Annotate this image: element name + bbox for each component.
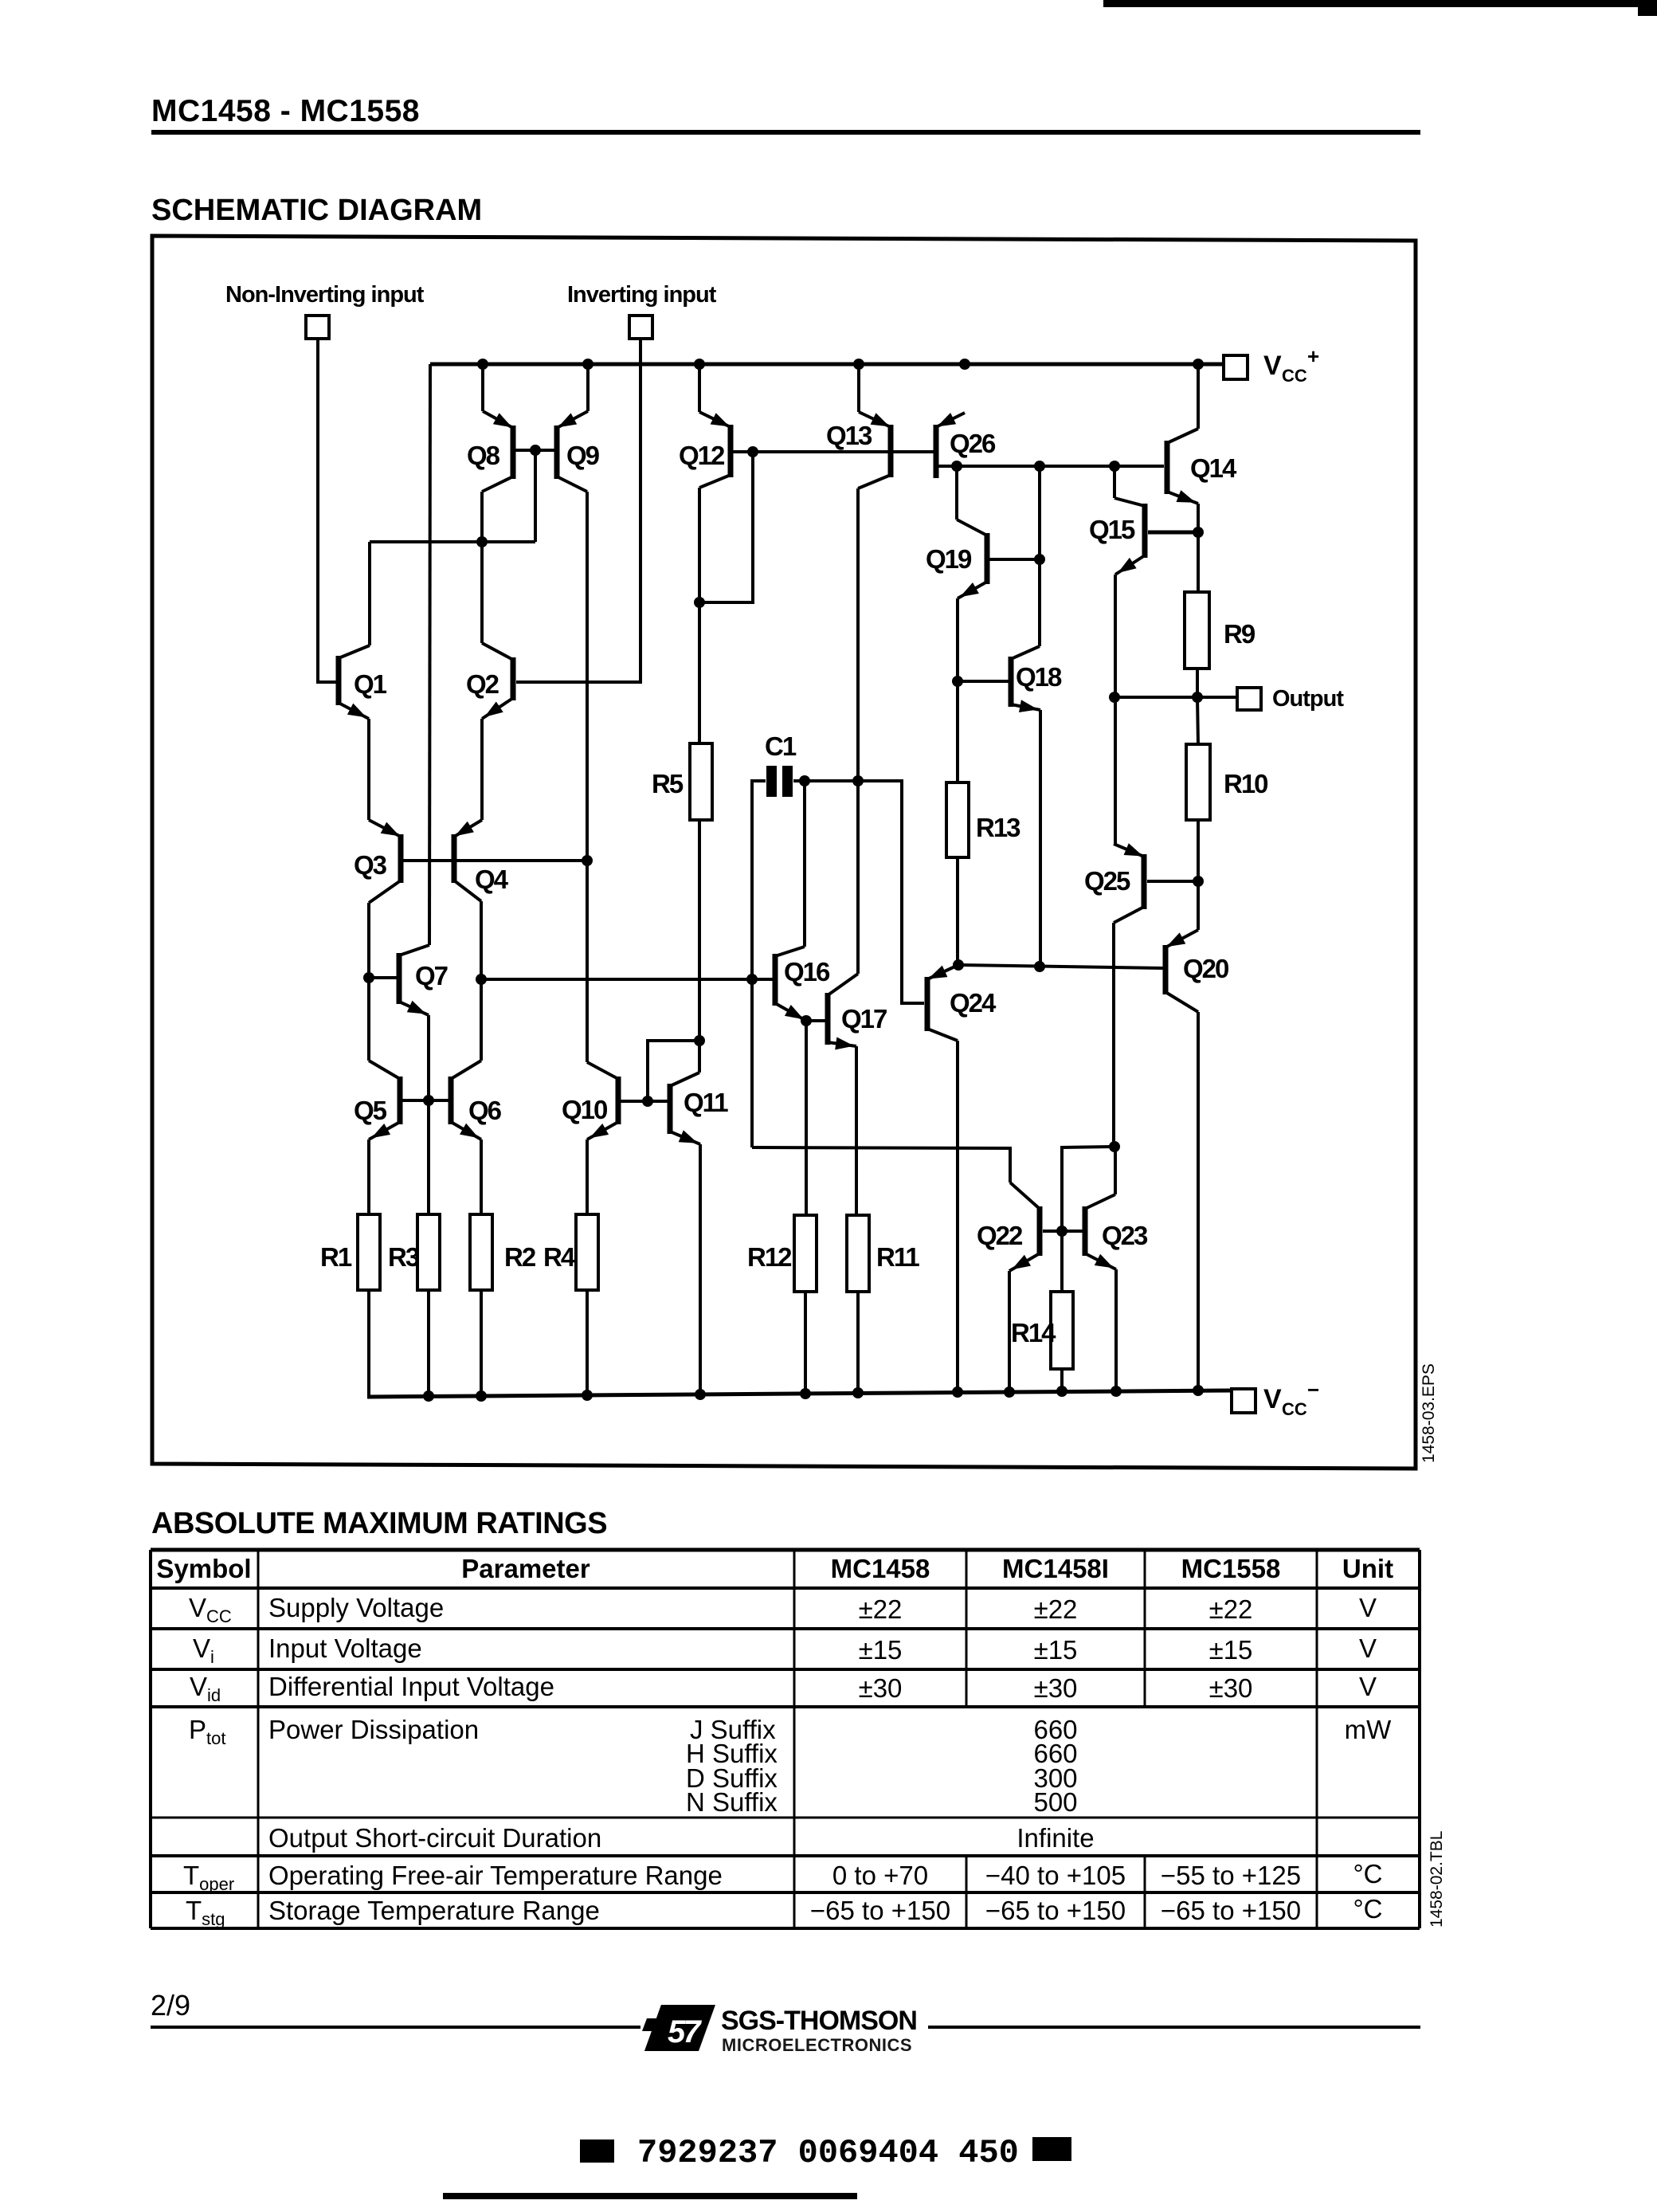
svg-text:Q2: Q2 xyxy=(466,669,499,699)
wire: Q10 emitter to R4 xyxy=(586,1139,589,1215)
table: absolute maximum ratings - grid xyxy=(151,1550,1420,1928)
transistor Q16 (NPN) xyxy=(773,947,831,1021)
wire: Q22/Q23 base tie to Q25 collector node xyxy=(1062,1147,1114,1231)
node: rail junction Q23 emitter xyxy=(1111,1386,1122,1397)
svg-text:MC1458I: MC1458I xyxy=(1002,1554,1109,1583)
svg-text:−55 to +125: −55 to +125 xyxy=(1161,1861,1301,1890)
svg-text:SCHEMATIC DIAGRAM: SCHEMATIC DIAGRAM xyxy=(151,194,482,227)
schematic frame xyxy=(152,236,1416,1469)
transistor Q5 (NPN) xyxy=(354,1061,403,1139)
node: Q22/Q23 base junction xyxy=(1056,1226,1067,1237)
wire: Q18 base xyxy=(958,680,1009,683)
svg-text:Differential Input Voltage: Differential Input Voltage xyxy=(268,1672,554,1701)
node: Q8/Q9 base junction xyxy=(530,445,541,456)
wire: Q25 base xyxy=(1147,880,1198,883)
wire: Q4/Q6 collector node to Q16 base xyxy=(481,978,773,981)
node: rail junction Q14 collector xyxy=(1193,359,1204,370)
node: R13 bottom / Q24 emitter junction xyxy=(953,959,964,971)
wire: Q23 collector riser xyxy=(1114,1147,1117,1194)
wire: Q15 emitter riser to output node xyxy=(1114,575,1117,844)
svg-text:R9: R9 xyxy=(1224,619,1255,649)
svg-text:Q12: Q12 xyxy=(679,441,725,470)
wire: output node line xyxy=(1114,696,1237,699)
svg-text:Q19: Q19 xyxy=(926,544,972,574)
svg-text:500: 500 xyxy=(1033,1787,1077,1817)
wire: output node to R10 top xyxy=(1197,697,1198,745)
svg-text:Q1: Q1 xyxy=(354,669,387,699)
svg-text:Operating Free-air Temperature: Operating Free-air Temperature Range xyxy=(268,1861,723,1890)
svg-text:Infinite: Infinite xyxy=(1017,1823,1094,1853)
svg-text:Unit: Unit xyxy=(1342,1554,1393,1583)
transistor Q15 (NPN) xyxy=(1089,498,1148,575)
svg-text:V: V xyxy=(1263,1384,1282,1414)
wire: Q8-Q9 base tie xyxy=(515,449,555,452)
svg-text:Q14: Q14 xyxy=(1190,453,1237,483)
wire: Q26 collector line to Q14 base xyxy=(938,465,1164,468)
table row Vid differential input voltage xyxy=(190,1672,1377,1705)
svg-text:±30: ±30 xyxy=(859,1673,903,1703)
wire: Q22 emitter riser xyxy=(1008,1271,1011,1392)
svg-text:57: 57 xyxy=(668,2014,702,2049)
svg-text:−: − xyxy=(1307,1378,1319,1402)
node: rail junction R14 xyxy=(1056,1386,1067,1397)
svg-text:CC: CC xyxy=(1282,366,1307,386)
wire: Q23 emitter riser xyxy=(1114,1269,1118,1391)
wire: R3 bottom riser xyxy=(427,1290,430,1396)
node: Q12 base-collector tie junction xyxy=(747,446,758,457)
terminal: Output xyxy=(1237,686,1344,712)
svg-text:V: V xyxy=(1263,351,1282,381)
wire: Q10-Q11 base tie xyxy=(621,1100,668,1103)
wire: Q8 emitter riser xyxy=(481,364,484,411)
wire: Q4 collector to Q6 collector column xyxy=(480,901,483,1061)
wire: Q25 collector riser xyxy=(1112,923,1115,1147)
svg-text:CC: CC xyxy=(1282,1399,1307,1419)
node: rail junction Q9 emitter xyxy=(582,359,593,370)
svg-text:±22: ±22 xyxy=(1209,1594,1253,1624)
scan artifact: top black bar xyxy=(1103,0,1657,7)
svg-text:Symbol: Symbol xyxy=(156,1554,251,1583)
svg-text:Inverting input: Inverting input xyxy=(567,282,717,308)
wire: R14 bottom riser xyxy=(1060,1369,1064,1391)
transistor Q6 (NPN) xyxy=(449,1061,502,1139)
node: rail junction Q26 emitter xyxy=(959,359,970,370)
wire: Q20 base line xyxy=(958,965,1163,968)
wire: Q3 collector to Q5 collector column xyxy=(367,903,370,1061)
wire: Q9/Q10 collector column to Q3-Q4 base line xyxy=(586,492,589,1062)
svg-text:R13: R13 xyxy=(976,813,1020,842)
wire: Q12 collector riser to R5 xyxy=(698,488,701,744)
svg-text:Q9: Q9 xyxy=(566,441,600,470)
node: rail junction R12 xyxy=(800,1388,811,1399)
transistor Q2 (NPN) xyxy=(466,643,516,719)
wire: Q19 collector riser xyxy=(955,466,958,520)
wire: Vcc+ rail to Q14 collector xyxy=(1197,364,1200,429)
transistor Q18 (NPN) xyxy=(1009,646,1063,712)
transistor Q9 (PNP) xyxy=(554,411,600,492)
node: rail junction Q12 emitter xyxy=(694,359,705,370)
svg-text:Parameter: Parameter xyxy=(461,1554,590,1583)
wire: Vcc+ top rail xyxy=(430,363,1224,367)
node: rail junction Q8 emitter xyxy=(477,359,488,370)
node: Q14 emitter / Q15 base junction xyxy=(1193,527,1204,538)
svg-text:±22: ±22 xyxy=(859,1594,903,1624)
terminal: Non-Inverting input xyxy=(225,282,425,339)
transistor Q13 (PNP) xyxy=(826,412,894,488)
wire: Q16 base node to Q22 collector xyxy=(752,1147,1010,1182)
resistor R11 xyxy=(847,1215,919,1292)
svg-text:R12: R12 xyxy=(747,1242,792,1272)
resistor R3 xyxy=(388,1214,440,1290)
wire: Q6 emitter to R2 xyxy=(480,1139,483,1215)
table row Tstg xyxy=(186,1894,1383,1929)
svg-text:MC1458 - MC1558: MC1458 - MC1558 xyxy=(151,94,420,128)
wire: Q8 collector riser / Q2 collector riser xyxy=(480,492,484,643)
svg-text:−65 to +150: −65 to +150 xyxy=(985,1896,1126,1925)
svg-text:MІCROELECTRONІCS: MІCROELECTRONІCS xyxy=(722,2035,912,2055)
svg-text:Q3: Q3 xyxy=(354,850,387,880)
wire: R12 bottom riser xyxy=(804,1292,807,1394)
wire: R12 top riser xyxy=(805,1021,808,1215)
wire: Q14 emitter to R9 top xyxy=(1197,504,1200,593)
svg-text:V: V xyxy=(1359,1634,1377,1663)
wire: Q1 emitter riser to Q3 emitter xyxy=(367,719,370,820)
svg-text:Q22: Q22 xyxy=(977,1221,1023,1250)
svg-text:1458-03.EPS: 1458-03.EPS xyxy=(1420,1363,1438,1463)
node: Q18 base junction xyxy=(952,676,963,687)
wire: non-inverting input to Q1 base xyxy=(318,339,336,682)
wire: Q17 emitter to R11 top xyxy=(855,1046,858,1215)
node: output junction R9/R10 xyxy=(1192,692,1203,703)
svg-text:MC1458: MC1458 xyxy=(831,1554,930,1583)
svg-text:Q11: Q11 xyxy=(684,1088,728,1117)
svg-text:Non-Inverting input: Non-Inverting input xyxy=(225,282,425,308)
wire: Q5 emitter to R1 xyxy=(367,1139,370,1215)
node: junction x1305 riser on Q14 base line xyxy=(1034,461,1045,472)
wire: Q16 collector riser xyxy=(803,781,806,947)
svg-text:−65 to +150: −65 to +150 xyxy=(1161,1896,1301,1925)
wire: Q19 base xyxy=(989,558,1040,561)
svg-text:R1: R1 xyxy=(320,1242,352,1272)
svg-text:R2: R2 xyxy=(504,1242,536,1272)
wire: R9 bottom to output node xyxy=(1196,669,1199,697)
wire: Q19 emitter riser to R13 top xyxy=(956,598,959,783)
resistor R10 xyxy=(1186,744,1267,820)
node: rail junction Q11 emitter xyxy=(695,1389,706,1400)
table row Toper xyxy=(183,1859,1383,1894)
node: Q11 base tie junction on R5 line xyxy=(694,1035,705,1046)
svg-text:±15: ±15 xyxy=(859,1635,903,1665)
wire: Q24 collector riser to rail xyxy=(956,1041,959,1392)
svg-text:Q16: Q16 xyxy=(784,957,830,986)
node: junction Q19 collector on Q14 base line xyxy=(951,461,962,472)
node: Q25 collector / Q23 collector junction xyxy=(1109,1141,1120,1152)
transistor Q23 (NPN) xyxy=(1083,1194,1149,1269)
svg-text:−65 to +150: −65 to +150 xyxy=(810,1896,950,1925)
svg-text:±30: ±30 xyxy=(1209,1673,1253,1703)
scan artifact: bottom line xyxy=(443,2193,857,2199)
resistor R13 xyxy=(946,782,1020,857)
barcode right block xyxy=(1032,2137,1071,2161)
svg-text:Q18: Q18 xyxy=(1016,662,1062,692)
transistor Q8 (PNP) xyxy=(467,411,516,492)
svg-text:R5: R5 xyxy=(652,769,684,798)
resistor R5 xyxy=(652,743,712,820)
wire: R1 bottom riser xyxy=(367,1290,370,1397)
terminal: Vcc+ xyxy=(1224,344,1319,386)
svg-text:V: V xyxy=(1359,1593,1377,1622)
svg-text:+: + xyxy=(1307,344,1319,368)
svg-text:Q8: Q8 xyxy=(467,441,500,470)
svg-text:V: V xyxy=(1359,1672,1377,1701)
wire: Q2 emitter riser to Q4 emitter xyxy=(480,719,484,820)
node: Q3/Q4 base - Q9/Q10 collector junction xyxy=(582,855,593,866)
wire: R10 bottom to Q20 emitter xyxy=(1197,820,1200,930)
wire: Q3/Q4 base line xyxy=(403,859,587,862)
wire: Q15 collector riser xyxy=(1113,466,1116,498)
transistor Q11 (NPN) xyxy=(668,1073,729,1144)
wire: Q12 emitter riser xyxy=(698,364,701,412)
transistor Q12 (PNP) xyxy=(679,412,734,488)
svg-text:Output Short-circuit Duration: Output Short-circuit Duration xyxy=(268,1823,601,1853)
transistor Q20 (PNP) xyxy=(1163,930,1229,1012)
wire: Q11 emitter to bottom rail xyxy=(699,1144,702,1394)
svg-text:Output: Output xyxy=(1272,686,1344,712)
svg-text:N Suffix: N Suffix xyxy=(686,1787,778,1817)
table row output short-circuit duration xyxy=(268,1823,1095,1853)
node: rail junction R2 xyxy=(476,1390,487,1402)
node: junction Q15 collector on Q14 base line xyxy=(1109,461,1120,472)
transistor Q14 (NPN) xyxy=(1165,429,1238,504)
wire: Q12 diode tie loop xyxy=(699,452,753,602)
node: rail junction R4 xyxy=(582,1390,593,1401)
svg-text:7929237 0069404 450: 7929237 0069404 450 xyxy=(637,2134,1019,2172)
svg-text:°C: °C xyxy=(1353,1894,1382,1924)
svg-text:MC1558: MC1558 xyxy=(1181,1554,1281,1583)
table row Vcc supply voltage xyxy=(189,1593,1377,1626)
wire: inverting input to Q2 base xyxy=(516,339,640,682)
wire: R13 bottom riser xyxy=(956,857,959,965)
svg-text:Q20: Q20 xyxy=(1183,954,1228,983)
svg-text:0 to +70: 0 to +70 xyxy=(832,1861,928,1890)
svg-text:Power Dissipation: Power Dissipation xyxy=(268,1715,479,1744)
svg-text:Input Voltage: Input Voltage xyxy=(268,1634,422,1663)
footer rule left xyxy=(151,2026,640,2029)
wire: Q9 emitter riser xyxy=(586,364,590,411)
node: Q5/Q6 base junction xyxy=(423,1095,434,1106)
barcode left block xyxy=(580,2139,614,2163)
svg-text:R14: R14 xyxy=(1011,1318,1056,1347)
transistor Q1 (NPN) xyxy=(336,645,387,719)
node: junction Q4/Q6 collector column xyxy=(476,974,487,985)
node: rail junction Q24 collector xyxy=(952,1386,963,1398)
header rule xyxy=(151,130,1420,135)
wire: Q7 emitter riser to Q5/Q6 base xyxy=(427,1015,430,1100)
wire: Vcc feed down to Q7 collector xyxy=(429,364,430,945)
wire: Vcc- bottom rail xyxy=(367,1390,1232,1397)
wire: Q7 base xyxy=(369,976,397,979)
wire: Q5-Q6 base tie xyxy=(402,1099,449,1102)
wire: Q18 collector riser column xyxy=(1038,466,1041,646)
node: rail junction R3 xyxy=(423,1390,434,1402)
wire: Q16 emitter node to Q17 base xyxy=(806,1019,826,1022)
wire: Q13 emitter riser xyxy=(857,364,860,412)
resistor R9 xyxy=(1185,592,1255,669)
wire: R5 bottom to Q11 collector xyxy=(698,820,701,1073)
wire: Q15 base xyxy=(1148,531,1198,535)
wire: Q12-Q13-Q26 base line xyxy=(733,450,934,453)
node: rail junction Q22 emitter xyxy=(1004,1386,1015,1398)
svg-text:Q26: Q26 xyxy=(950,429,996,458)
node: Q7 base junction xyxy=(363,972,374,983)
table row Ptot power dissipation xyxy=(189,1715,1392,1817)
svg-text:Q5: Q5 xyxy=(354,1096,387,1125)
svg-text:Q24: Q24 xyxy=(950,988,997,1018)
transistor Q26 (PNP) xyxy=(934,413,997,478)
footer rule right xyxy=(928,2026,1420,2029)
svg-text:C1: C1 xyxy=(765,731,797,761)
svg-text:Q4: Q4 xyxy=(475,865,509,894)
capacitor C1 xyxy=(765,731,797,797)
wire: R4 bottom riser xyxy=(586,1290,589,1395)
svg-text:Q6: Q6 xyxy=(468,1096,502,1125)
node: Q16 emitter / R12 junction xyxy=(801,1015,812,1026)
transistor Q25 (PNP) xyxy=(1084,843,1147,923)
node: rail junction Q20 collector xyxy=(1193,1385,1204,1396)
table row Vi input voltage xyxy=(193,1634,1377,1667)
transistor Q24 (PNP) xyxy=(925,965,997,1041)
svg-text:±30: ±30 xyxy=(1034,1673,1078,1703)
svg-text:SGS-THOMSON: SGS-THOMSON xyxy=(721,2006,917,2036)
node: Q18 emitter junction on Q20 base line xyxy=(1034,961,1045,972)
resistor R14 xyxy=(1011,1292,1073,1369)
svg-text:Q15: Q15 xyxy=(1089,515,1135,544)
transistor Q3 (PNP) xyxy=(354,820,404,903)
wire: Q22-Q23 base tie xyxy=(1043,1230,1083,1233)
svg-text:ABSOLUTE MAXIMUM RATINGS: ABSOLUTE MAXIMUM RATINGS xyxy=(151,1507,607,1540)
node: Q8 collector / Q2 collector junction xyxy=(476,536,488,547)
svg-text:R4: R4 xyxy=(543,1242,576,1272)
wire: Q18 emitter riser xyxy=(1039,710,1042,967)
svg-text:Storage Temperature Range: Storage Temperature Range xyxy=(268,1896,600,1925)
transistor Q17 (NPN) xyxy=(825,974,887,1049)
wire: Q5/Q6 base node down to R3 xyxy=(427,1100,430,1215)
svg-text:°C: °C xyxy=(1353,1859,1382,1888)
svg-text:Supply Voltage: Supply Voltage xyxy=(268,1593,444,1622)
svg-text:Q13: Q13 xyxy=(826,421,872,450)
svg-text:2/9: 2/9 xyxy=(151,1989,190,2022)
node: output junction Q15 emitter xyxy=(1109,692,1120,703)
resistor R2 xyxy=(470,1214,536,1290)
transistor Q10 (NPN) xyxy=(562,1062,621,1139)
node: junction on Q12 collector riser xyxy=(694,597,705,608)
terminal: Inverting input xyxy=(567,282,717,339)
node: rail junction Q13 emitter xyxy=(853,359,864,370)
node: Q10/Q11 base junction xyxy=(642,1096,653,1107)
table header row xyxy=(156,1554,1393,1583)
wire: R2 bottom riser xyxy=(480,1290,483,1396)
svg-text:Q25: Q25 xyxy=(1084,866,1130,896)
svg-text:Q23: Q23 xyxy=(1102,1221,1148,1250)
svg-text:mW: mW xyxy=(1345,1715,1392,1744)
node: Q16 collector junction on C1 line xyxy=(799,775,810,786)
wire: Q13 collector column down to Q17 collector xyxy=(856,488,860,974)
wire: Q11 base-collector tie xyxy=(648,1041,699,1101)
svg-text:R10: R10 xyxy=(1224,769,1267,798)
node: Q16 base junction xyxy=(746,974,758,985)
SGS-THOMSON ST logo xyxy=(642,2005,715,2051)
wire: C1 right plate to Q24 base xyxy=(793,781,924,1003)
svg-text:R11: R11 xyxy=(876,1242,919,1272)
wire: Q1/Q2 collectors to Q8 collector node xyxy=(370,540,535,543)
wire: Q8-Q9 base tie riser xyxy=(534,450,537,542)
node: Q19 base junction xyxy=(1034,554,1045,565)
svg-text:−40 to +105: −40 to +105 xyxy=(985,1861,1126,1890)
wire: Q24 base corner xyxy=(903,1002,924,1005)
resistor R12 xyxy=(747,1215,817,1292)
transistor Q7 (NPN) xyxy=(397,945,448,1015)
transistor Q22 (NPN) xyxy=(977,1182,1043,1271)
svg-text:±15: ±15 xyxy=(1209,1635,1253,1665)
svg-text:±22: ±22 xyxy=(1034,1594,1078,1624)
terminal: Vcc- xyxy=(1232,1378,1319,1419)
node: Q25 base junction xyxy=(1193,876,1204,887)
wire: base node to R14 top xyxy=(1060,1231,1064,1292)
svg-text:Q17: Q17 xyxy=(841,1004,887,1033)
node: rail junction R11 xyxy=(852,1387,864,1398)
wire: Q1 collector riser xyxy=(368,542,371,645)
svg-text:Q7: Q7 xyxy=(415,961,448,990)
transistor Q4 (PNP) xyxy=(452,820,509,901)
transistor Q19 (NPN) xyxy=(926,520,990,598)
resistor R1 xyxy=(320,1214,380,1290)
svg-text:R3: R3 xyxy=(388,1242,420,1272)
wire: R11 bottom riser xyxy=(856,1292,860,1393)
node: compensation node C1 right / Q13-Q17 collectors xyxy=(852,775,864,786)
svg-text:1458-02.TBL: 1458-02.TBL xyxy=(1428,1831,1446,1928)
wire: Q20 collector riser xyxy=(1197,1012,1200,1390)
svg-text:±15: ±15 xyxy=(1034,1635,1078,1665)
svg-text:Q10: Q10 xyxy=(562,1095,607,1124)
wire: C1 left plate to Q16 base xyxy=(752,781,766,1147)
resistor R4 xyxy=(543,1214,598,1290)
